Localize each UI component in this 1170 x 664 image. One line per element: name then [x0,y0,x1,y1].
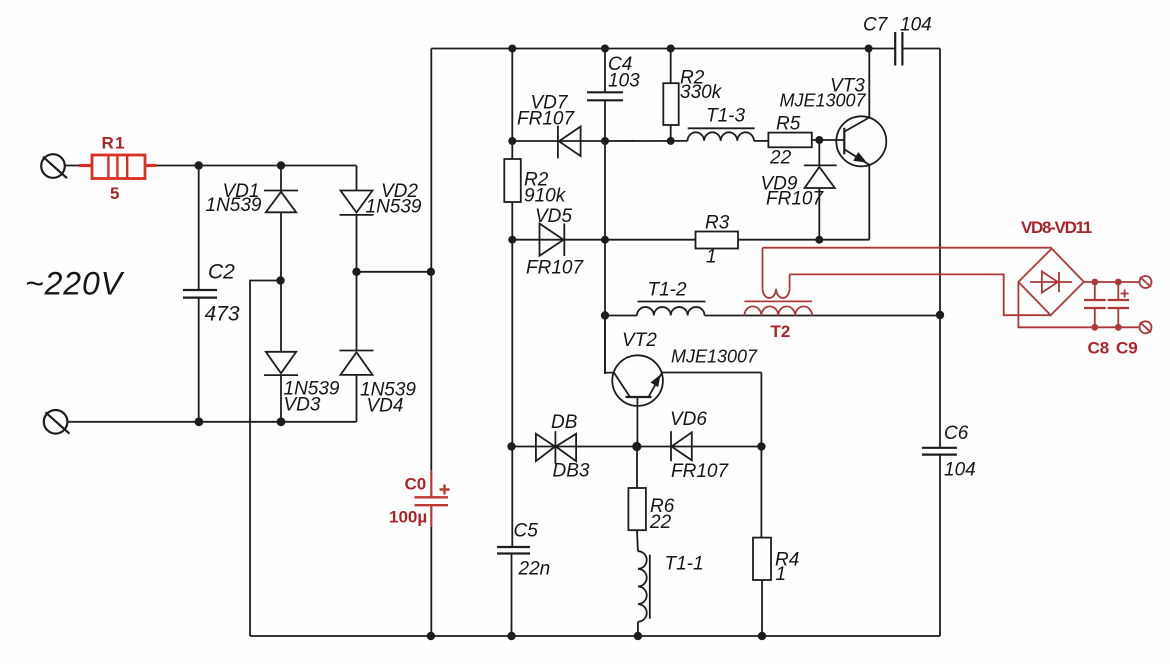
node top rail C4 [601,45,609,53]
node VD7 left [508,137,516,145]
wire left rail [430,49,432,471]
svg-text:C2: C2 [208,261,235,284]
node bottom R4 [758,632,766,640]
node VD5 left [508,236,516,244]
svg-text:C0: C0 [405,475,427,494]
svg-text:VD5: VD5 [535,206,572,227]
node top rail R2-330k [667,45,675,53]
wire x605 vertical [604,141,606,374]
resistor R2 910k [504,159,566,207]
svg-text:T1-1: T1-1 [665,554,704,575]
node C8 top [1091,279,1098,286]
wire bridge left mid to x250 [250,281,281,637]
inductor T1-2 [605,280,706,316]
terminal output minus [1140,321,1152,333]
transistor VT3 MJE13007 [780,49,887,240]
bridge VD8-VD11 (red diamond) [1018,218,1091,315]
svg-text:DB3: DB3 [553,461,590,482]
resistor R6 22 [628,447,674,552]
svg-text:VD6: VD6 [670,409,707,430]
svg-text:VT2: VT2 [622,330,657,351]
svg-text:T2: T2 [771,322,791,341]
capacitor C6 104 [922,423,976,481]
svg-text:1N539: 1N539 [366,197,422,218]
node top rail x512 [508,45,516,53]
node VD3 anode bottom [277,417,286,426]
diode VD5 FR107 [512,206,605,279]
svg-text:T1-2: T1-2 [648,280,688,301]
svg-text:104: 104 [944,460,976,481]
svg-text:C5: C5 [514,521,539,542]
svg-text:330k: 330k [680,82,723,103]
svg-text:MJE13007: MJE13007 [671,347,758,367]
capacitor C2 [183,166,240,422]
node C9 top [1115,279,1122,286]
svg-text:FR107: FR107 [766,189,824,210]
wire bottom rail [250,635,940,637]
node R5 / VD9 / VT3 base [815,136,823,144]
node bottom C0 [427,632,435,640]
svg-text:~220V: ~220V [25,266,125,302]
wire top rail [431,48,895,50]
capacitor C4 103 [587,49,640,142]
node R2-330k bottom [667,137,675,145]
wire red output second [790,274,1051,315]
svg-text:VD4: VD4 [367,396,404,417]
capacitor C5 22n [497,521,550,637]
capacitor C9 [1108,282,1138,358]
svg-text:5: 5 [110,184,119,203]
node VT2 base / R6 top [632,442,641,451]
node C8 bottom [1091,324,1098,331]
wire red output minus rail [1018,282,1140,327]
resistor R1 [79,134,156,204]
wire bridge right mid to left rail [357,271,432,273]
node VD9 bottom [815,236,823,244]
svg-text:R5: R5 [776,114,801,135]
svg-text:103: 103 [608,71,640,92]
svg-text:DB: DB [551,412,578,433]
svg-text:473: 473 [205,303,240,326]
resistor R4 1 [753,447,799,637]
svg-text:R3: R3 [705,213,730,234]
diode VD1 1N539 [206,166,299,352]
transistor VT2 MJE13007 [605,316,761,447]
svg-text:104: 104 [900,15,932,36]
svg-text:C9: C9 [1116,339,1138,358]
svg-text:FR107: FR107 [671,461,729,482]
svg-text:VD8-VD11: VD8-VD11 [1021,218,1092,237]
svg-text:22: 22 [649,512,672,533]
node VD3 bottom [195,417,204,426]
inductor T1-1 [638,551,704,636]
svg-text:1: 1 [706,247,717,268]
wire red output plus rail [1084,281,1140,283]
svg-text:FR107: FR107 [526,258,584,279]
resistor R5 22 [768,114,844,169]
capacitor C0 100u electrolytic [389,471,450,527]
node junction VD1 top [277,161,285,169]
node C9 bottom [1115,324,1122,331]
node VD6 right / R4 top [757,442,765,450]
inductor T1-3 [605,106,768,142]
wire T1-2 to right rail [705,315,941,317]
terminal output plus [1140,276,1152,288]
node VD7 right [601,137,609,145]
svg-text:1: 1 [776,564,787,585]
svg-text:910k: 910k [524,186,567,207]
node VD5 right [601,236,609,244]
wire left rail lower [430,527,432,636]
diode VD6 FR107 [637,409,762,482]
node right rail T2 [936,311,944,319]
diode VD9 FR107 [761,140,837,240]
node left rail bridge [427,268,435,276]
transformer T2 core (red) [744,300,812,302]
capacitor C7 104 [863,15,932,66]
node A junction R1/C2 [195,161,203,169]
resistor R2 330k [663,49,722,142]
diode VD3 1N539 [264,352,340,422]
node T1-2 left / VT2 base feed [601,311,609,319]
transformer T2 secondary (red) [744,306,812,315]
svg-text:FR107: FR107 [517,109,575,130]
resistor R3 1 [605,213,869,268]
diode VD7 FR107 [512,93,605,159]
svg-text:VD3: VD3 [284,395,321,416]
svg-text:C7: C7 [863,15,889,36]
capacitor C8 [1084,282,1109,358]
svg-text:R1: R1 [102,134,126,153]
node bridge right mid [352,268,360,276]
svg-text:1N539: 1N539 [206,195,262,216]
wire input bottom [67,421,356,423]
transformer T2 primary (red) [763,248,791,341]
wire red output top [763,247,1052,249]
diode VD4 1N539 [340,351,417,422]
node bottom C5 [507,632,515,640]
wire x512 upper [511,49,513,160]
wire input top [156,165,357,167]
wire right rail [939,49,941,448]
svg-text:22n: 22n [518,559,551,580]
svg-text:C8: C8 [1088,339,1110,358]
node DB3 left [507,442,515,450]
node bridge left mid [276,276,284,284]
node bottom T1-1 [634,632,642,640]
svg-text:MJE13007: MJE13007 [780,91,867,111]
terminal X1 top input [41,154,79,178]
svg-text:C6: C6 [944,423,969,444]
svg-text:22: 22 [769,148,792,169]
svg-text:100µ: 100µ [389,508,427,527]
diac DB3 [512,412,637,482]
node top rail VT3 collector [865,45,873,53]
terminal X2 bottom input [44,410,70,434]
diode VD2 1N539 [340,166,422,351]
wire x512 mid [511,202,513,547]
svg-text:T1-3: T1-3 [706,106,746,127]
